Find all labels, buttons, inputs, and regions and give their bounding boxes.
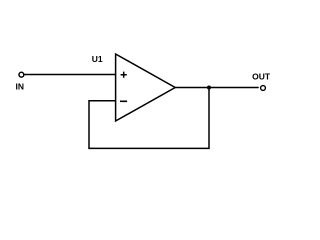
wire feedback loop to - input	[89, 88, 209, 149]
op-amp U1 triangle	[116, 54, 176, 121]
svg-text:OUT: OUT	[252, 71, 271, 81]
terminal OUT	[261, 86, 266, 91]
wire output	[175, 87, 259, 89]
op-amp - input marker	[120, 100, 127, 102]
svg-text:IN: IN	[16, 81, 25, 91]
terminal IN	[19, 72, 24, 77]
wire IN to op-amp + input	[24, 74, 115, 76]
junction node	[207, 86, 211, 90]
svg-text:U1: U1	[92, 54, 103, 64]
op-amp + input marker	[121, 72, 127, 78]
